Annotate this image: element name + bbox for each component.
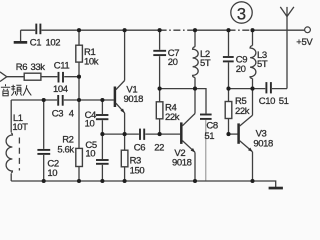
svg-text:C8: C8 [206,121,217,132]
wire L1 branch vertical [10,100,12,181]
junction top rail at L3 [250,28,254,32]
wire C8 lower lead to ground rail [205,119,207,181]
svg-text:33k: 33k [31,62,46,73]
wire emitter line y=134 [102,133,159,135]
junction emitter line at V1-R3 [123,132,127,136]
capacitor C9 [223,55,247,76]
wire audio input branch [7,76,79,78]
svg-text:C10: C10 [259,96,275,107]
junction top rail at C7 [158,28,162,32]
capacitor C3 [52,94,74,120]
wire base line y=100 [11,99,114,101]
wire L2 upper lead [194,30,196,47]
wire V2 base from R4 junction [160,133,181,135]
svg-text:22k: 22k [235,106,250,117]
ground bottom-right [269,187,283,190]
wire V1 collector [124,30,126,80]
svg-text:20: 20 [168,57,178,68]
svg-text:104: 104 [53,84,68,95]
wire V1 emitter to R3 vertical [124,113,126,181]
wire L3 lower lead [252,79,254,89]
svg-text:10k: 10k [84,57,99,68]
wire C4 C5 branch vertical [101,100,103,181]
label audio input (Chinese) [1,84,31,96]
svg-text:20: 20 [236,64,246,75]
svg-text:C1: C1 [30,38,41,49]
svg-text:22: 22 [154,143,164,154]
junction base line at C2 [42,98,46,102]
capacitor C8 [200,114,218,143]
junction top rail at R1 [77,28,81,32]
junction ground rail at C2 [42,179,46,183]
wire V2 emitter [194,152,196,181]
junction V3 base at R5 [226,132,230,136]
junction mid rail at C9-R5 [226,87,230,91]
svg-text:102: 102 [46,38,61,49]
svg-text:3: 3 [237,5,246,23]
svg-text:51: 51 [279,96,289,107]
junction mid rail at C7-R4 [158,87,162,91]
junction top rail at V1 collector [123,28,127,32]
capacitor C10 [259,81,289,107]
svg-text:9018: 9018 [172,158,192,169]
svg-text:10T: 10T [12,122,28,133]
capacitor C6 [134,128,164,154]
wire bottom ground rail [11,181,276,187]
svg-text:C3: C3 [52,109,63,120]
junction ground rail at R2 [77,179,81,183]
input arrow terminal [0,72,7,82]
wire V3 emitter [252,152,254,181]
wire top rail dash-dot segment C9 to L3 [229,29,253,31]
svg-text:51: 51 [204,131,214,142]
resistor R4 [156,102,179,123]
wire V2 collector [194,89,196,114]
wire V3 base from R5 junction [229,133,238,135]
svg-text:4: 4 [69,109,74,120]
wire top rail from ground to C7 junction [21,29,160,31]
antenna [280,7,294,17]
wire top rail dash-dot segment C7 to L2 [160,29,195,31]
svg-text:150: 150 [130,166,145,177]
wire L2 lower lead [194,78,196,89]
capacitor C7 [153,48,179,68]
ground top-left [14,30,28,44]
capacitor C11 [53,61,69,95]
junction emitter line at C4-C5 [100,132,104,136]
resistor R2 [57,135,82,167]
junction ground rail at V2 emitter [193,179,197,183]
svg-text:9018: 9018 [253,139,273,150]
wire antenna feed vertical [286,17,288,89]
svg-text:C11: C11 [54,61,70,72]
resistor R3 [121,150,144,176]
wire C2 branch vertical [43,100,45,181]
svg-text:5T: 5T [257,59,268,70]
transistor V1 [115,81,143,113]
wire top rail L3 to +5V terminal [253,29,305,31]
wire L3 upper lead [252,30,254,45]
svg-text:5.6k: 5.6k [57,145,74,156]
junction ground rail at C5 [100,179,104,183]
capacitor C5 [85,140,108,165]
svg-text:5T: 5T [200,58,211,69]
svg-text:10: 10 [85,118,95,129]
junction mid rail at L3-V3 collector [250,87,254,91]
wire mid rail stage3 to antenna through C10 [229,88,288,90]
terminal +5V [296,27,313,48]
svg-text:+5V: +5V [296,37,313,48]
capacitor C4 [85,110,109,130]
wire C7 R4 vertical [159,30,161,134]
inductor L2 [193,47,211,78]
junction ground rail at R3 [123,179,127,183]
capacitor C2 [37,149,58,179]
svg-text:9018: 9018 [124,94,144,105]
junction mid rail at L2-V2 collector [193,87,197,91]
junction V2 base at R4 [158,132,162,136]
wire V3 collector [252,89,254,116]
junction ground rail at V3 emitter [250,179,254,183]
inductor L3 [250,46,268,79]
wire C9 R5 vertical [228,30,230,134]
svg-text:10: 10 [47,168,57,179]
junction base line at C4 [100,98,104,102]
junction top rail at L2 [193,28,197,32]
wire top rail L2 to C9 [195,29,229,31]
capacitor C1 [30,23,60,49]
wire bias divider vertical R1-R2 [78,30,80,181]
svg-text:22k: 22k [165,112,180,123]
junction top rail at C9 [226,28,230,32]
resistor R1 [76,45,99,67]
transistor V3 [239,115,273,152]
svg-text:R6: R6 [16,62,27,73]
resistor R6 [16,62,45,80]
inductor L1 [4,113,28,173]
junction base line at R2 [77,98,81,102]
circled number 3 [231,2,252,24]
wire mid rail stage2 [160,89,206,115]
junction audio branch at R1-R2 [77,75,81,79]
resistor R5 [225,96,250,118]
svg-text:10: 10 [85,148,95,159]
svg-text:C6: C6 [134,143,145,154]
transistor V2 [172,114,195,169]
